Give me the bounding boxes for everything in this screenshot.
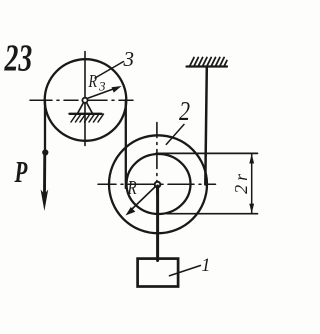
svg-text:23: 23: [4, 37, 33, 79]
rod from pulley 2 axle to block 1: [156, 186, 159, 261]
pulley 3 vertical centerline: [84, 52, 86, 146]
svg-text:3: 3: [98, 79, 106, 94]
radius arrow R3: [87, 88, 116, 99]
dimension arrow down: [249, 204, 254, 214]
block 1: [138, 259, 179, 287]
pulley 3 axle: [82, 98, 87, 103]
svg-text:P: P: [14, 154, 28, 189]
pulley 3 disc: [45, 59, 127, 141]
rope attachment dot: [42, 149, 48, 155]
pulley 2 horizontal centerline: [98, 183, 216, 185]
label 2 leader: [166, 124, 184, 144]
pulley 2 vertical centerline: [156, 123, 158, 195]
rope from pulley 3 down to drum of pulley 2: [125, 100, 127, 188]
svg-text:R: R: [88, 73, 98, 92]
pivot ground hatching: [71, 114, 104, 122]
pulley 2 inner drum circle: [127, 154, 191, 214]
pulley 3 pivot support triangle: [78, 103, 93, 114]
pivot ground line: [70, 113, 102, 115]
rope from ceiling to pulley 2 rim: [205, 67, 207, 185]
svg-text:1: 1: [201, 256, 210, 276]
dimension arrow up: [249, 154, 254, 164]
dimension 2r vertical line: [251, 153, 253, 213]
force P arrow: [43, 153, 46, 194]
pulley 2 outer circle: [109, 135, 207, 233]
svg-text:3: 3: [123, 47, 135, 71]
svg-text:R: R: [127, 176, 137, 199]
svg-text:2r: 2r: [231, 170, 251, 194]
label 1 leader: [170, 266, 201, 276]
ceiling hatching: [190, 58, 227, 66]
svg-text:2: 2: [179, 97, 190, 127]
ceiling support line: [187, 65, 228, 67]
rope from pulley 3 down to force P: [44, 100, 46, 153]
pulley 2 axle: [155, 182, 161, 188]
radius arrow R: [131, 185, 158, 211]
pulley 3 horizontal centerline: [30, 99, 133, 101]
dimension 2r bottom extension line: [167, 213, 258, 215]
label 3 leader: [95, 62, 124, 79]
dimension 2r top extension line: [156, 152, 258, 154]
